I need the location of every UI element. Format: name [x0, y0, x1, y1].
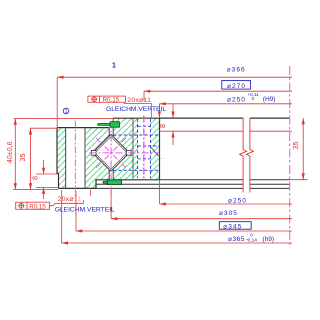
- bolt hole outer ring (section void): [66, 128, 85, 189]
- feature frame bottom R0,15: [16, 202, 50, 209]
- svg-text:⌀305: ⌀305: [219, 210, 238, 217]
- svg-text:⌀365: ⌀365: [228, 236, 245, 243]
- svg-text:GLEICHM.VERTEIL: GLEICHM.VERTEIL: [106, 106, 166, 113]
- dimension 35 right: [302, 118, 304, 180]
- svg-text:R0,15: R0,15: [29, 203, 46, 210]
- dimension 8 right: [172, 104, 174, 145]
- svg-text:⌀250: ⌀250: [228, 197, 247, 204]
- dimension ⌀365 -0,14 (h9): [62, 190, 292, 243]
- hatch inner ring right band: [150, 118, 159, 180]
- spacer left: [91, 150, 96, 155]
- circled 1 mark: [63, 108, 69, 114]
- leader to hole bottom: [90, 190, 92, 196]
- bearing axis centerline: [289, 66, 291, 248]
- inner ring raceway relief line: [132, 119, 134, 179]
- svg-text:1: 1: [112, 63, 116, 70]
- roller vertical centerline: [110, 122, 112, 197]
- faint reference dashes: [160, 157, 164, 159]
- silhouette bottom lines: [160, 179, 291, 181]
- hatch outer ring right band: [85, 128, 109, 189]
- dimension ⌀270 (boxed): [144, 91, 292, 101]
- dimension 35 left: [30, 128, 32, 189]
- centerline bolt hole inner ring: [143, 116, 145, 181]
- svg-text:0,14: 0,14: [248, 237, 258, 243]
- outer ring outline: [57, 128, 109, 189]
- svg-text:1: 1: [65, 109, 68, 115]
- svg-text:40±0,6: 40±0,6: [5, 141, 14, 163]
- dimension 40±0.6: [14, 119, 16, 190]
- dimension ⌀250 +0,11 (H9): [159, 104, 292, 118]
- grease nipple bottom: [103, 180, 122, 185]
- hidden lines across inner ring: [113, 135, 159, 170]
- svg-text:(h9): (h9): [262, 236, 274, 243]
- hatch inner ring left band: [113, 118, 137, 180]
- red reference line right (raceway depth): [160, 130, 292, 132]
- ring gap channel below roller: [109, 170, 113, 180]
- roller diagonal centerlines: [96, 138, 126, 168]
- svg-text:20x⌀11: 20x⌀11: [127, 97, 151, 104]
- dimension ⌀250 bottom: [160, 180, 293, 204]
- roller horizontal centerline: [90, 152, 160, 154]
- label underline top: [124, 103, 152, 105]
- hatch outer ring left band: [57, 128, 66, 189]
- svg-text:20x⌀11: 20x⌀11: [58, 196, 82, 203]
- svg-text:35: 35: [291, 142, 300, 150]
- svg-text:⌀270: ⌀270: [227, 83, 246, 90]
- break lines with zigzag: [240, 118, 254, 193]
- frame connector line: [50, 200, 84, 206]
- svg-text:0: 0: [252, 96, 255, 102]
- svg-text:⌀366: ⌀366: [227, 67, 246, 74]
- leader to hole: [150, 104, 152, 118]
- dimension ⌀305: [111, 190, 292, 219]
- grease nipple top: [98, 122, 120, 128]
- silhouette lines to centerline right: top: [160, 117, 291, 119]
- svg-text:8: 8: [31, 176, 40, 180]
- spacer right: [126, 150, 131, 155]
- hidden bolt hole inner ring (dashed blue): [138, 119, 160, 178]
- left dims extension lines: [13, 119, 113, 190]
- dimension ⌀345 (boxed): [76, 192, 292, 232]
- ring gap channel above roller: [109, 118, 113, 136]
- feature frame top R0,15: [88, 96, 126, 102]
- inner ring chamfer line: [152, 148, 159, 156]
- svg-text:R0,15: R0,15: [103, 97, 120, 104]
- svg-text:GLEICHM.VERTEIL: GLEICHM.VERTEIL: [55, 206, 115, 213]
- dimension 8 left: [43, 160, 45, 199]
- inner ring outline: [113, 118, 159, 180]
- svg-text:35: 35: [18, 154, 27, 162]
- svg-text:⌀250: ⌀250: [227, 96, 246, 103]
- svg-text:(H9): (H9): [263, 96, 276, 103]
- svg-text:8: 8: [158, 124, 167, 128]
- roller (crossed roller, diamond section): [92, 134, 129, 171]
- dimension ⌀366: [57, 77, 292, 128]
- svg-text:⌀345: ⌀345: [223, 223, 242, 230]
- centerline bolt hole outer ring: [74, 121, 76, 197]
